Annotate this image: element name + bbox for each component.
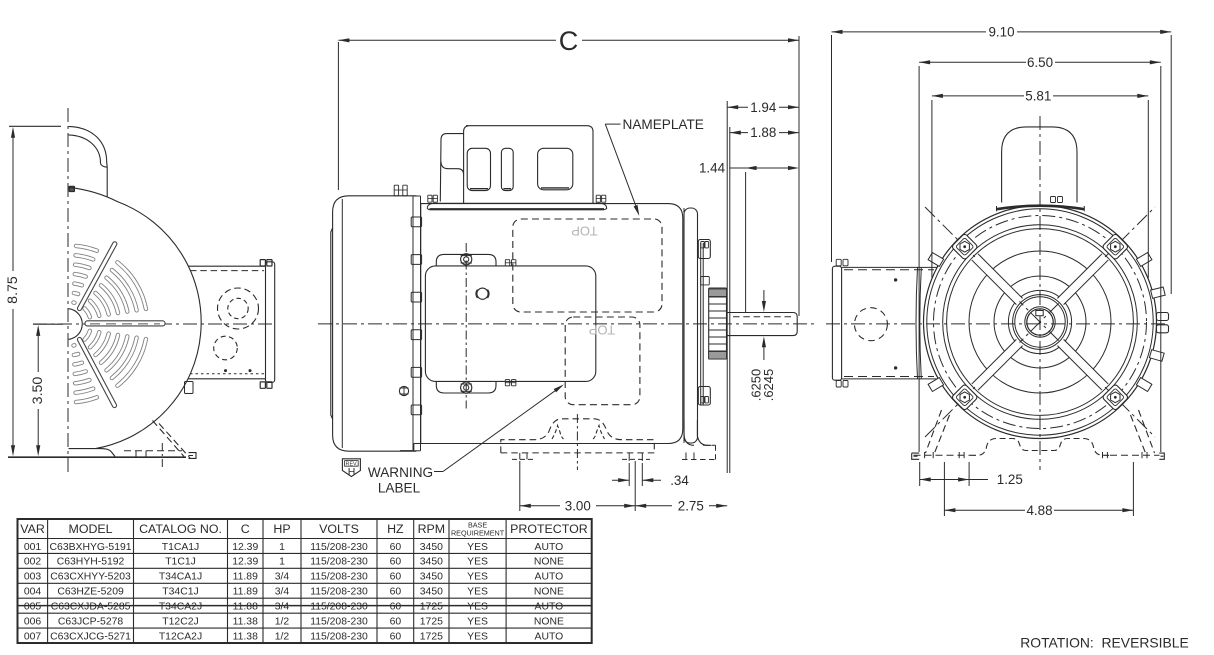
svg-text:T34C1J: T34C1J — [162, 587, 198, 598]
svg-text:NAMEPLATE: NAMEPLATE — [623, 117, 704, 132]
right view vertical centerline — [1039, 116, 1041, 470]
face circle A — [943, 225, 1138, 420]
svg-text:12.39: 12.39 — [232, 557, 258, 568]
body lower-left bolt — [399, 386, 408, 395]
svg-text:YES: YES — [467, 572, 488, 583]
flange bolts right — [596, 195, 600, 202]
slot centerline dashes — [90, 323, 160, 325]
svg-text:T1CA1J: T1CA1J — [162, 542, 200, 553]
svg-text:C63CXJDA-5285: C63CXJDA-5285 — [51, 602, 131, 613]
fan cover flat bottom — [69, 449, 116, 457]
knockout 2 — [501, 148, 513, 190]
knockout 1 — [467, 148, 490, 190]
right feet legs — [926, 410, 942, 453]
right foot dashed — [703, 444, 716, 446]
svg-text:LABEL: LABEL — [378, 480, 421, 495]
svg-text:115/208-230: 115/208-230 — [310, 602, 368, 613]
svg-text:WARNING: WARNING — [368, 465, 433, 480]
flange bolts left — [428, 195, 432, 202]
rev H badge — [342, 459, 360, 477]
svg-text:115/208-230: 115/208-230 — [310, 587, 368, 598]
svg-text:TOP: TOP — [589, 323, 616, 338]
svg-text:T12CA2J: T12CA2J — [159, 631, 202, 642]
svg-text:60: 60 — [390, 602, 402, 613]
svg-text:AUTO: AUTO — [535, 602, 564, 613]
bracket grommet — [477, 288, 488, 299]
svg-text:001: 001 — [24, 542, 42, 553]
svg-text:4.88: 4.88 — [1026, 503, 1052, 518]
svg-text:6.50: 6.50 — [1027, 55, 1053, 70]
right view diagonal centerline 1 — [925, 207, 1155, 437]
left foot hidden edges — [153, 421, 185, 457]
svg-text:T12C2J: T12C2J — [162, 616, 198, 627]
svg-text:AUTO: AUTO — [535, 572, 564, 583]
svg-text:VAR: VAR — [20, 522, 45, 536]
right box screws — [894, 278, 897, 281]
svg-text:T34CA2J: T34CA2J — [159, 602, 202, 613]
svg-text:1725: 1725 — [420, 616, 443, 627]
dim C extension right — [798, 36, 800, 316]
left box bolt top — [260, 260, 265, 266]
svg-text:HP: HP — [273, 522, 290, 536]
left box knockout small — [214, 336, 238, 360]
outer rim circle — [924, 206, 1157, 439]
left conduit box end plate — [266, 262, 275, 383]
dim 5.81 — [932, 95, 1024, 97]
flower plate circle — [994, 276, 1086, 368]
svg-text:60: 60 — [390, 557, 402, 568]
nameplate leader — [605, 123, 620, 125]
svg-text:11.89: 11.89 — [233, 587, 258, 598]
svg-text:9.10: 9.10 — [988, 25, 1014, 40]
bell tab top — [698, 240, 710, 259]
svg-text:005: 005 — [24, 602, 42, 613]
inner rim circle — [927, 209, 1153, 435]
clamp band — [412, 196, 414, 451]
left box knockout large — [218, 288, 259, 329]
svg-text:3/4: 3/4 — [275, 602, 290, 613]
cover top/bottom edges — [413, 195, 421, 197]
dim 4.88 — [944, 509, 1025, 511]
svg-text:002: 002 — [24, 557, 42, 568]
svg-text:YES: YES — [467, 631, 488, 642]
svg-text:TOP: TOP — [571, 224, 598, 239]
diagonal bolt bosses — [1102, 233, 1129, 260]
bracket plate — [425, 266, 595, 382]
motor body outline — [414, 204, 683, 444]
dim 4.88 extensions — [943, 462, 945, 516]
svg-text:VOLTS: VOLTS — [319, 522, 359, 536]
svg-text:1.44: 1.44 — [699, 161, 726, 176]
grille spoke lower — [80, 340, 115, 406]
rim lugs — [1151, 287, 1166, 298]
right foot solid — [684, 420, 712, 445]
svg-text:T34CA1J: T34CA1J — [159, 572, 202, 583]
middle feet centerline — [576, 414, 578, 470]
shaft keyway — [1036, 311, 1043, 316]
left view housing top outer arc — [69, 126, 108, 196]
svg-text:NONE: NONE — [534, 616, 564, 627]
svg-text:C63CXJCG-5271: C63CXJCG-5271 — [50, 631, 131, 642]
svg-text:60: 60 — [390, 542, 402, 553]
dim C line — [338, 39, 556, 41]
fan hub — [69, 309, 83, 340]
svg-text:115/208-230: 115/208-230 — [310, 557, 368, 568]
svg-text:.34: .34 — [670, 473, 689, 488]
bracket edge bolts top — [505, 260, 509, 266]
dim 1.44 extension — [745, 172, 747, 313]
body top bolts left — [394, 185, 398, 196]
svg-text:.6245: .6245 — [761, 369, 776, 402]
dim 1.44 — [730, 167, 757, 169]
svg-text:11.89: 11.89 — [233, 572, 258, 583]
left foot end bracket — [189, 453, 197, 459]
box mounting flange — [427, 203, 606, 209]
svg-text:3.00: 3.00 — [565, 498, 591, 513]
svg-text:HZ: HZ — [387, 522, 404, 536]
right feet base — [914, 454, 971, 456]
shaft keyway hidden line — [733, 316, 792, 318]
right box knockout — [854, 308, 887, 341]
svg-text:RPM: RPM — [418, 522, 446, 536]
svg-text:3/4: 3/4 — [275, 587, 290, 598]
left view horizontal centerline — [33, 323, 276, 325]
svg-text:YES: YES — [467, 602, 488, 613]
grille spoke upper — [80, 244, 115, 309]
bracket top bolt — [461, 254, 472, 265]
bracket bolt centerline — [465, 243, 467, 409]
svg-text:007: 007 — [24, 631, 42, 642]
scallop ring — [1008, 290, 1071, 353]
svg-text:60: 60 — [390, 572, 402, 583]
svg-text:1.88: 1.88 — [750, 125, 776, 140]
svg-text:115/208-230: 115/208-230 — [310, 631, 368, 642]
dim 6.50 extensions — [918, 66, 920, 452]
middle view horizontal centerline — [318, 323, 818, 325]
right box end plate — [832, 266, 841, 380]
svg-text:11.88: 11.88 — [233, 602, 258, 613]
dim 8.75 extension lines — [9, 125, 61, 127]
svg-text:004: 004 — [24, 587, 42, 598]
svg-text:12.39: 12.39 — [232, 542, 258, 553]
svg-text:1.94: 1.94 — [750, 100, 777, 115]
svg-text:3450: 3450 — [420, 557, 443, 568]
right view diagonal centerline 2 — [925, 207, 1155, 437]
bell ring — [684, 208, 698, 443]
svg-text:REQUIREMENT: REQUIREMENT — [451, 529, 505, 538]
svg-text:2.75: 2.75 — [678, 498, 704, 513]
left box bolt bottom — [260, 382, 265, 388]
dim .6250/.6245 — [763, 290, 765, 302]
svg-text:1/2: 1/2 — [275, 616, 290, 627]
right view horizontal centerline — [826, 323, 1168, 325]
middle feet outline — [501, 419, 655, 453]
middle feet pads — [519, 453, 521, 460]
dim 5.81 extensions — [931, 100, 933, 278]
svg-text:C: C — [241, 522, 250, 536]
face circle B — [947, 229, 1134, 416]
svg-text:11.38: 11.38 — [233, 616, 258, 627]
svg-text:PROTECTOR: PROTECTOR — [510, 522, 588, 536]
svg-text:C63HZE-5209: C63HZE-5209 — [57, 587, 124, 598]
svg-text:60: 60 — [390, 587, 402, 598]
svg-text:8.75: 8.75 — [5, 276, 21, 304]
dim 9.10 extensions — [831, 35, 833, 262]
bolt circle centerline — [934, 216, 1147, 429]
dim 1.25 — [920, 479, 969, 481]
dim 6.50 — [919, 61, 1026, 63]
dim 3.00 — [520, 505, 560, 507]
right feet end brackets — [912, 453, 920, 459]
svg-text:C63JCP-5278: C63JCP-5278 — [58, 616, 123, 627]
svg-text:1: 1 — [279, 542, 285, 553]
dims right extension lines — [726, 101, 728, 473]
svg-text:3450: 3450 — [420, 542, 443, 553]
dome base — [997, 206, 1085, 210]
svg-text:YES: YES — [467, 587, 488, 598]
shaft — [727, 313, 798, 336]
clamp band clips — [411, 217, 421, 227]
bell face plate — [700, 243, 702, 405]
dim 1.88 — [730, 132, 748, 134]
svg-text:CATALOG NO.: CATALOG NO. — [139, 522, 222, 536]
svg-text:1: 1 — [279, 557, 285, 568]
svg-text:YES: YES — [467, 557, 488, 568]
body bottom left step — [400, 444, 414, 451]
cross rib channels — [1057, 254, 1108, 305]
left foot centerline — [161, 443, 163, 467]
svg-text:NONE: NONE — [534, 557, 564, 568]
svg-text:115/208-230: 115/208-230 — [310, 572, 368, 583]
svg-text:3.50: 3.50 — [30, 377, 46, 405]
warning leader — [434, 471, 443, 473]
svg-text:1.25: 1.25 — [997, 472, 1023, 487]
dim 3.00/2.75 extensions — [519, 461, 521, 511]
svg-text:H: H — [348, 466, 356, 478]
svg-text:C63BXHYG-5191: C63BXHYG-5191 — [50, 542, 132, 553]
svg-text:C63HYH-5192: C63HYH-5192 — [57, 557, 125, 568]
bracket edge bolts bottom — [505, 380, 509, 386]
svg-text:C: C — [559, 26, 579, 56]
left view vertical centerline — [67, 108, 69, 472]
svg-text:3450: 3450 — [420, 587, 443, 598]
bracket top tab — [436, 254, 496, 266]
bracket bottom tab — [436, 381, 496, 393]
table row 005 strikethrough — [18, 605, 592, 607]
cover edge clip — [185, 382, 194, 394]
dim 3.50 extension — [33, 323, 63, 325]
svg-text:11.38: 11.38 — [233, 631, 258, 642]
svg-text:ROTATION: REVERSIBLE: ROTATION: REVERSIBLE — [1020, 635, 1189, 651]
svg-text:3450: 3450 — [420, 572, 443, 583]
table grid — [18, 519, 592, 643]
left box rivets — [224, 369, 227, 372]
svg-text:YES: YES — [467, 542, 488, 553]
svg-text:AUTO: AUTO — [535, 542, 564, 553]
center rings — [1013, 295, 1068, 350]
top conduit box body — [464, 126, 593, 203]
svg-text:YES: YES — [467, 616, 488, 627]
middle feet gussets — [552, 426, 564, 440]
svg-text:60: 60 — [390, 631, 402, 642]
nameplate dashed rect — [513, 219, 662, 312]
right box bolts — [836, 259, 841, 266]
dim .34 — [612, 479, 629, 481]
svg-text:5.81: 5.81 — [1025, 89, 1051, 104]
dim C extension left — [337, 42, 339, 190]
svg-text:MODEL: MODEL — [69, 522, 113, 536]
dim 2.75 — [635, 505, 672, 507]
bell tab bottom — [698, 387, 710, 406]
svg-text:003: 003 — [24, 572, 42, 583]
left view housing top inner arc — [69, 135, 108, 167]
knockout 3 — [538, 148, 573, 190]
inner face circle — [969, 251, 1111, 393]
svg-text:NONE: NONE — [534, 587, 564, 598]
housing clip — [69, 186, 74, 191]
grille horizontal slot — [88, 320, 163, 326]
fan cover outer circle — [69, 187, 202, 448]
bracket bottom bolt — [461, 382, 472, 393]
dim 9.10 — [832, 31, 987, 33]
svg-text:1/2: 1/2 — [275, 631, 290, 642]
right dome — [1002, 127, 1077, 203]
svg-text:3/4: 3/4 — [275, 572, 290, 583]
dim 3.50 line — [37, 330, 39, 372]
shaft hub splines — [709, 288, 727, 359]
right feet pads — [924, 452, 926, 458]
left conduit box top — [188, 265, 266, 267]
svg-text:1725: 1725 — [420, 631, 443, 642]
svg-text:60: 60 — [390, 616, 402, 627]
dim 1.25 extensions — [919, 462, 921, 486]
right side double tab — [1157, 313, 1169, 321]
middle fan cover — [333, 196, 417, 451]
svg-text:C63CXHYY-5203: C63CXHYY-5203 — [50, 572, 131, 583]
dim 1.94 — [727, 106, 748, 108]
svg-text:AUTO: AUTO — [535, 631, 564, 642]
svg-text:115/208-230: 115/208-230 — [310, 542, 368, 553]
left conduit box bottom — [188, 378, 266, 380]
fan grille vent slots — [74, 246, 146, 402]
ground line — [8, 456, 186, 458]
right box body — [842, 266, 937, 268]
svg-text:115/208-230: 115/208-230 — [310, 616, 368, 627]
dim 8.75 line — [12, 132, 14, 271]
warning dashed rect — [565, 317, 640, 405]
svg-text:006: 006 — [24, 616, 42, 627]
svg-text:1725: 1725 — [420, 602, 443, 613]
svg-text:T1C1J: T1C1J — [165, 557, 196, 568]
